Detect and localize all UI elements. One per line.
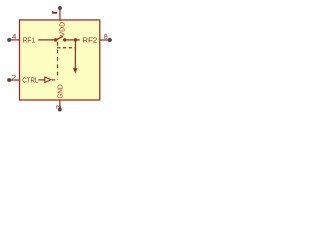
svg-text:GND: GND [55, 85, 64, 99]
svg-text:RF1: RF1 [23, 35, 36, 44]
wire RF1 to switch pole [38, 39, 55, 41]
pin GND end dot [58, 107, 62, 111]
shunt arrow line [74, 40, 76, 69]
pin RF1 end dot [7, 38, 11, 42]
pin RF2 wire [99, 39, 110, 41]
svg-text:CTRL: CTRL [22, 75, 38, 84]
symbol body U1 [20, 20, 100, 100]
svg-text:VDD: VDD [57, 22, 66, 37]
switch lever [56, 36, 63, 39]
switch throw contact dot [63, 38, 66, 41]
svg-text:4: 4 [12, 34, 17, 41]
shunt arrowhead [73, 68, 78, 73]
svg-text:8: 8 [104, 34, 108, 41]
svg-text:3: 3 [54, 105, 63, 109]
pin CTRL wire [9, 79, 20, 81]
pin RF1 wire [9, 39, 20, 41]
wire contact to RF2 [65, 39, 80, 41]
pin RF2 end dot [108, 38, 112, 42]
pin CTRL end dot [7, 78, 11, 82]
pin VDD wire [59, 8, 61, 21]
pin GND wire [59, 100, 61, 110]
svg-text:2: 2 [11, 73, 16, 82]
background [0, 0, 120, 120]
svg-text:RF2: RF2 [82, 35, 97, 44]
buffer triangle [45, 77, 51, 82]
dashed control branch horizontal [57, 47, 76, 49]
dashed line buffer to control [52, 79, 58, 81]
junction dot switch pole [54, 38, 57, 41]
wire CTRL to buffer [38, 79, 44, 81]
dashed control line vertical [57, 42, 59, 80]
junction dot shunt branch [74, 38, 77, 41]
pin VDD end dot [58, 6, 62, 10]
pin number 1 [52, 11, 57, 14]
